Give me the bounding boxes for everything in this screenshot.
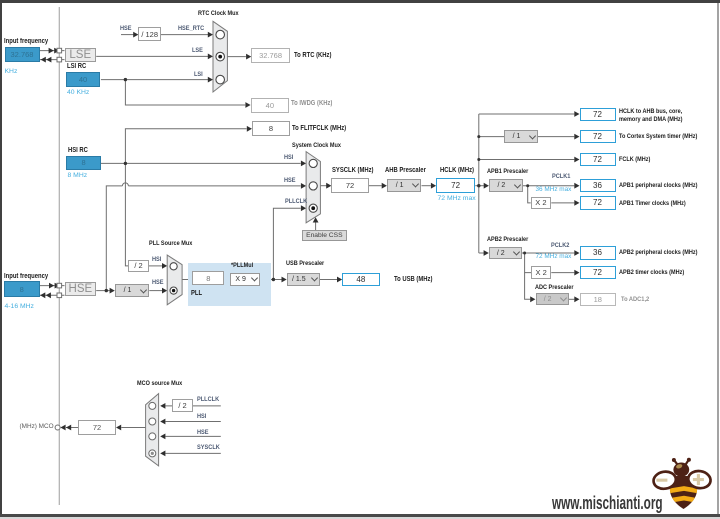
chip boundary vertical line bbox=[58, 7, 60, 505]
wire trunk to FCLK 72 box bbox=[479, 159, 575, 161]
wire HSE box to PREDIV /1 bbox=[96, 290, 110, 292]
PREDIV /1 dropdown bbox=[115, 284, 150, 297]
pin circle MCO bbox=[55, 425, 60, 430]
label PLL Source Mux bbox=[149, 240, 192, 247]
RTC mux radio LSE selected bbox=[216, 52, 225, 61]
arrow into /128 bbox=[133, 32, 138, 38]
junction trunk fclk row bbox=[477, 158, 480, 161]
watermark text bbox=[552, 493, 663, 514]
system mux radio PLLCLK selected bbox=[309, 204, 317, 212]
MCO mux radio HSE bbox=[149, 433, 156, 440]
wire RTC mux output to To-RTC box bbox=[227, 56, 246, 58]
LSI RC value box bbox=[66, 72, 100, 88]
To RTC value box bbox=[251, 48, 290, 63]
RTC clock mux body bbox=[213, 21, 227, 92]
APB2 timer 72 box bbox=[580, 266, 616, 279]
junction HSI row bbox=[124, 162, 127, 165]
wire HSI branch down to PLL /2 bbox=[125, 163, 128, 266]
wire APB2 X2 branch bbox=[525, 253, 532, 273]
net label LSE bbox=[192, 47, 203, 54]
arrow into PREDIV /1 bbox=[110, 288, 115, 294]
arrow into USB prescaler bbox=[282, 277, 287, 283]
net label HSE bbox=[120, 25, 132, 32]
wire X2 to APB1 timer 72 box bbox=[551, 202, 574, 204]
pin square OSC32_OUT bbox=[57, 57, 62, 62]
wire HSI row to system mux bbox=[101, 162, 301, 164]
net label PCLK1 bbox=[552, 173, 570, 180]
wire HSE label to /128 bbox=[121, 34, 134, 36]
label PLL bbox=[191, 290, 202, 297]
wire SYSCLK box to AHB prescaler bbox=[369, 185, 382, 187]
arrow into PLL mux HSI bbox=[162, 263, 167, 269]
label To Cortex System timer bbox=[619, 133, 697, 140]
system mux radio HSI bbox=[309, 159, 317, 167]
bee wing plus bbox=[693, 478, 704, 481]
net label SYSCLK bbox=[197, 444, 220, 451]
label APB1 Prescaler bbox=[487, 168, 528, 175]
PLL source mux body bbox=[167, 255, 182, 305]
wire PLL 8 box to X9 bbox=[224, 279, 230, 281]
divider /128 box bbox=[138, 27, 161, 41]
arrow into PLL mux HSE bbox=[162, 288, 167, 294]
label LSI RC bbox=[67, 63, 86, 70]
HSI /2 divider box bbox=[128, 260, 149, 273]
arrow into AHB prescaler bbox=[382, 183, 387, 189]
HSE input frequency value box bbox=[4, 281, 40, 297]
junction APB2 X2 bbox=[523, 252, 526, 255]
bee antennae bbox=[674, 460, 688, 465]
PLL block background bbox=[188, 263, 271, 307]
HCLK value box bbox=[436, 178, 475, 193]
wire X2 to APB2 timer 72 box bbox=[551, 272, 574, 274]
arrow into RTC mux LSE bbox=[208, 54, 213, 60]
wire MCO HSI stub bbox=[166, 421, 221, 423]
junction HCLK trunk bbox=[477, 184, 480, 187]
USB prescaler dropdown bbox=[287, 273, 320, 286]
frame left border bbox=[0, 0, 2, 519]
pin square OSC_IN bbox=[57, 283, 62, 288]
APB2 peripheral 36 box bbox=[580, 246, 616, 259]
pin square OSC_OUT bbox=[57, 293, 62, 298]
label HCLK (MHz) bbox=[440, 167, 474, 174]
label System Clock Mux bbox=[292, 142, 341, 149]
wire MCO SYSCLK stub bbox=[166, 452, 221, 454]
net label PLLCLK bbox=[285, 198, 307, 205]
label APB1 Timer clocks bbox=[619, 200, 686, 207]
ADC 18 value box bbox=[580, 293, 617, 306]
wire APB1 prescaler to 36 box bbox=[523, 185, 574, 187]
LSE input frequency value box bbox=[5, 47, 40, 62]
label 36 MHz max bbox=[536, 186, 572, 193]
wire LSE OSC32_OUT row bbox=[40, 59, 65, 61]
arrow MCO mux PLLCLK input bbox=[160, 403, 165, 409]
label To USB (MHz) bbox=[394, 276, 432, 283]
net label HSI bbox=[284, 154, 293, 161]
bee right wing bbox=[687, 469, 712, 489]
label ADC Prescaler bbox=[535, 284, 573, 291]
arrows HSE osc in bbox=[49, 283, 54, 289]
label AHB Prescaler bbox=[385, 167, 426, 174]
APB2 X2 box bbox=[531, 266, 551, 279]
HSE oscillator box bbox=[65, 282, 97, 296]
wire APB2 prescaler to 36 box bbox=[522, 252, 574, 254]
HSI RC value box bbox=[66, 156, 101, 171]
arrows LSE osc out bbox=[41, 57, 46, 63]
label USB Prescaler bbox=[286, 260, 324, 267]
wire LSI branch down to IWDG box bbox=[125, 80, 245, 105]
wire PREDIV /1 to PLL mux bbox=[149, 290, 162, 292]
LSE oscillator box bbox=[65, 48, 97, 63]
net label PLLCLK bbox=[197, 396, 219, 403]
wire PLL mux output to PLL block bbox=[182, 279, 192, 281]
junction HSE row bbox=[105, 289, 108, 292]
HCLK to AHB 72 box bbox=[580, 108, 616, 121]
arrow into APB1 prescaler bbox=[484, 183, 489, 189]
MCO mux radio PLLCLK bbox=[149, 402, 156, 409]
arrows LSE osc in bbox=[49, 48, 54, 54]
APB2 prescaler dropdown bbox=[489, 247, 522, 259]
MCO 72 value box bbox=[78, 420, 115, 435]
wire trunk to Cortex /1 prescaler bbox=[479, 136, 505, 138]
arrow into ADC 18 box bbox=[574, 296, 579, 302]
arrow into HCLK-AHB 72 box bbox=[574, 111, 579, 117]
label To IWDG (KHz) bbox=[291, 100, 332, 107]
arrows MCO out to pin bbox=[60, 425, 65, 431]
wire Enable CSS to mux bbox=[315, 222, 317, 231]
net label HSE_RTC bbox=[178, 25, 204, 32]
label KHz bbox=[5, 68, 18, 75]
bee thorax bbox=[673, 476, 690, 484]
bee left wing bbox=[652, 470, 677, 490]
MCO /2 divider box bbox=[172, 399, 193, 411]
PLL mux radio HSE selected bbox=[170, 287, 177, 294]
label APB2 peripheral clocks bbox=[619, 249, 697, 256]
net label HSE bbox=[197, 429, 209, 436]
APB1 X2 box bbox=[531, 197, 552, 209]
APB1 timer 72 box bbox=[580, 196, 616, 209]
net label LSI bbox=[194, 71, 203, 78]
system clock mux body bbox=[306, 152, 320, 223]
wire X9 to USB prescaler junction bbox=[260, 279, 282, 281]
net label HSE bbox=[284, 177, 296, 184]
MCO source mux body bbox=[146, 394, 159, 466]
label (MHz) MCO bbox=[20, 423, 54, 430]
label MCO source Mux bbox=[137, 380, 182, 387]
label RTC Clock Mux bbox=[198, 10, 239, 17]
wire HSI /2 to PLL mux bbox=[149, 265, 162, 267]
frame top border bbox=[0, 0, 720, 3]
RTC mux radio LSI bbox=[216, 75, 225, 84]
SYSCLK value box bbox=[331, 178, 368, 193]
pin square OSC32_IN bbox=[57, 48, 62, 53]
wire HSE vertical + row to system mux with hop over HSI vertical bbox=[106, 186, 122, 291]
bee wing minus bbox=[656, 479, 667, 482]
wire trunk to HCLK-AHB 72 box bbox=[479, 113, 575, 115]
bee head spot bbox=[676, 463, 683, 469]
wire system mux output to SYSCLK box bbox=[320, 185, 326, 187]
wire HSI junction up to FLITFCLK box bbox=[125, 129, 246, 164]
label 8 MHz bbox=[68, 172, 88, 179]
arrows HSE osc out bbox=[40, 292, 45, 298]
label FCLK (MHz) bbox=[619, 156, 650, 163]
wire HSE OSC_OUT row bbox=[40, 294, 65, 296]
junction APB1 X2 bbox=[526, 184, 529, 187]
USB 48 value box bbox=[342, 273, 379, 287]
arrow into To-RTC box bbox=[246, 54, 251, 60]
wire MCO mux to 72 box bbox=[121, 427, 145, 429]
FCLK 72 box bbox=[580, 153, 616, 166]
label *PLLMul bbox=[231, 262, 253, 269]
junction PLL output bbox=[272, 278, 275, 281]
frame bottom border bbox=[0, 514, 720, 517]
RTC mux radio HSE_RTC bbox=[216, 30, 225, 39]
label To FLITFCLK (MHz) bbox=[292, 125, 346, 132]
AHB prescaler dropdown bbox=[387, 179, 422, 192]
arrow into APB1 timer 72 box bbox=[574, 200, 579, 206]
wire MCO /2 PLLCLK stub bbox=[166, 405, 221, 407]
frame right border bbox=[717, 3, 719, 519]
junction trunk cortex row bbox=[477, 135, 480, 138]
wire ADC prescaler to 18 box bbox=[569, 298, 575, 300]
arrow into APB2 prescaler bbox=[484, 250, 489, 256]
arrow into SYSCLK box bbox=[326, 183, 331, 189]
arrow into Cortex 72 box bbox=[574, 134, 579, 140]
MCO mux radio HSI bbox=[149, 418, 156, 425]
label APB2 Prescaler bbox=[487, 236, 528, 243]
Enable CSS button bbox=[302, 230, 348, 241]
arrow into HCLK box bbox=[431, 183, 436, 189]
wire /128 to RTC mux HSE_RTC input bbox=[161, 34, 208, 36]
arrow into IWDG box bbox=[245, 102, 250, 108]
wire Cortex /1 to 72 box bbox=[538, 136, 575, 138]
To FLITFCLK value box bbox=[252, 121, 290, 136]
APB1 prescaler dropdown bbox=[489, 179, 523, 192]
label APB2 timer clocks bbox=[619, 269, 684, 276]
wire HCLK box to APB1 prescaler bbox=[475, 185, 484, 187]
arrow into ADC prescaler bbox=[530, 296, 535, 302]
net label HSI bbox=[197, 413, 206, 420]
To IWDG value box bbox=[251, 98, 290, 113]
arrow into APB1 36 box bbox=[574, 183, 579, 189]
arrow into APB2 36 box bbox=[574, 250, 579, 256]
label APB1 peripheral clocks bbox=[619, 182, 697, 189]
wire HCLK fanout trunk vertical bbox=[478, 114, 480, 253]
system mux radio HSE bbox=[309, 182, 317, 190]
label To ADC1,2 bbox=[621, 296, 649, 303]
arrow into system mux HSI bbox=[301, 161, 306, 167]
arrow into USB 48 box bbox=[337, 277, 342, 283]
arrow into RTC mux HSE_RTC bbox=[208, 32, 213, 38]
arrow into MCO 72 box bbox=[116, 425, 121, 431]
net label HSE bbox=[152, 279, 164, 286]
label 72 MHz max bbox=[438, 195, 476, 202]
net label PCLK2 bbox=[551, 242, 569, 249]
arrow MCO mux HSE input bbox=[160, 434, 165, 440]
arrow MCO mux HSI input bbox=[160, 419, 165, 425]
Cortex timer 72 box bbox=[580, 130, 616, 143]
junction LSI-IWDG bbox=[124, 78, 127, 81]
label 72 MHz max APB2 bbox=[536, 253, 572, 260]
arrow into FCLK 72 box bbox=[574, 157, 579, 163]
label HCLK to AHB bus bbox=[619, 108, 682, 115]
arrow into system mux PLLCLK bbox=[301, 205, 306, 211]
label input frequency HSE bbox=[4, 273, 48, 280]
bee head bbox=[673, 463, 689, 477]
wire USB prescaler to 48 box bbox=[320, 279, 337, 281]
arrow into RTC mux LSI bbox=[208, 77, 213, 83]
MCO mux radio SYSCLK selected bbox=[149, 450, 156, 457]
wire hop bridge bbox=[122, 183, 128, 186]
label HSI RC bbox=[68, 147, 88, 154]
label input frequency LSE bbox=[4, 38, 48, 45]
wire HSE OSC_IN row bbox=[40, 285, 65, 287]
wire LSE OSC32_IN row bbox=[40, 50, 65, 52]
bee logo bbox=[652, 458, 711, 509]
wire LSI row to RTC mux bbox=[101, 79, 208, 81]
wire PLLCLK vertical + row to system mux bbox=[273, 208, 300, 279]
wire MCO 72 box to pin bbox=[66, 427, 78, 429]
arrow into APB2 timer 72 box bbox=[574, 270, 579, 276]
arrow Enable CSS up bbox=[313, 217, 319, 222]
arrow into FLITFCLK box bbox=[247, 126, 252, 132]
arrow MCO mux SYSCLK input bbox=[160, 451, 165, 457]
label To RTC (KHz) bbox=[294, 52, 331, 59]
APB1 peripheral 36 box bbox=[580, 179, 616, 192]
wire AHB prescaler to HCLK box bbox=[422, 185, 431, 187]
PLLMul X9 dropdown bbox=[230, 273, 260, 286]
wire LSE box to RTC mux bbox=[96, 55, 208, 57]
label 40 KHz bbox=[67, 89, 89, 96]
wire APB1 X2 branch bbox=[528, 186, 531, 203]
label 4-16 MHz bbox=[5, 303, 34, 310]
net label HSI bbox=[152, 256, 161, 263]
PLL mux radio HSI bbox=[170, 263, 177, 270]
Cortex /1 prescaler dropdown bbox=[504, 130, 537, 143]
arrow into system mux HSE bbox=[301, 183, 306, 189]
PLL input 8 box bbox=[192, 271, 224, 285]
ADC prescaler dropdown disabled bbox=[536, 293, 569, 305]
wire ADC prescaler branch bbox=[525, 273, 531, 300]
label SYSCLK (MHz) bbox=[332, 167, 373, 174]
wire MCO HSE stub bbox=[166, 435, 221, 437]
wire trunk to APB2 prescaler bbox=[479, 252, 484, 254]
